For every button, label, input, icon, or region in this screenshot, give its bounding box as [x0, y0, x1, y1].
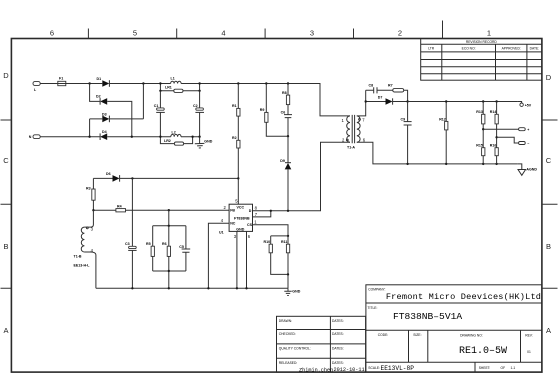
svg-text:C: C — [546, 156, 552, 165]
wire IC bottom pins — [237, 231, 247, 288]
diode D1 — [97, 77, 110, 87]
svg-text:C1: C1 — [154, 104, 159, 108]
svg-text:F1: F1 — [59, 77, 63, 81]
svg-text:C: C — [3, 156, 9, 165]
svg-text:D3: D3 — [102, 112, 107, 116]
node LR2 right — [191, 136, 193, 138]
svg-text:AGND: AGND — [526, 167, 537, 171]
svg-text:L1: L1 — [171, 76, 175, 80]
svg-text:1-1: 1-1 — [511, 366, 516, 370]
node clamp R8 top — [287, 82, 289, 84]
svg-text:4: 4 — [221, 29, 225, 38]
node sense bottom — [287, 273, 289, 275]
svg-text:D: D — [546, 73, 552, 82]
svg-text:EE13VL-8P: EE13VL-8P — [381, 365, 415, 372]
node C2 bottom — [198, 136, 200, 138]
resistor R3 — [86, 178, 95, 210]
svg-text:7: 7 — [362, 118, 365, 123]
svg-text:FT838NB: FT838NB — [234, 217, 250, 221]
resistor R7 clamp — [260, 84, 288, 137]
node L junction — [88, 82, 90, 84]
node + rail junction — [142, 82, 144, 84]
wire L2 right — [181, 136, 200, 138]
svg-text:ECO NO:: ECO NO: — [462, 47, 476, 51]
wire D2 anode to minus vertical — [107, 101, 132, 136]
svg-text:3: 3 — [234, 234, 237, 239]
node minus rail junction — [131, 136, 133, 138]
node LR1 right — [198, 90, 200, 92]
svg-text:DATES:: DATES: — [332, 347, 344, 351]
node divider mid right — [495, 136, 497, 138]
zone letters right — [546, 73, 552, 335]
resistor R12 preload — [439, 102, 448, 164]
node FB group bottom — [168, 270, 170, 272]
resistor R9 sense left — [264, 236, 289, 275]
svg-text:01: 01 — [527, 350, 531, 354]
wire D1 to L1 — [110, 83, 171, 85]
svg-text:APPROVED:: APPROVED: — [502, 47, 521, 51]
svg-text:T1-A: T1-A — [347, 146, 355, 150]
resistor LR2 — [160, 137, 192, 146]
svg-text:L: L — [34, 88, 37, 92]
svg-text:3: 3 — [310, 29, 314, 38]
svg-text:R8: R8 — [282, 91, 287, 95]
svg-text:R13: R13 — [476, 110, 483, 114]
wire primary pin2 to drain — [253, 142, 351, 211]
aux winding T1-B — [74, 210, 96, 288]
svg-text:1: 1 — [342, 118, 345, 123]
svg-text:D: D — [249, 209, 252, 213]
node N junction — [88, 136, 90, 138]
svg-text:DATES:: DATES: — [332, 332, 344, 336]
svg-text:CHECKED:: CHECKED: — [279, 332, 296, 336]
capacitor C9 — [401, 102, 412, 164]
svg-text:RELEASED:: RELEASED: — [279, 361, 298, 365]
svg-text:DATE:: DATE: — [530, 47, 540, 51]
capacitor C8 — [366, 84, 393, 94]
node FB group — [168, 209, 170, 211]
svg-text:3: 3 — [91, 226, 94, 231]
fuse F1 — [58, 77, 66, 86]
svg-text:LR1: LR1 — [165, 86, 172, 90]
svg-text:7: 7 — [255, 212, 258, 217]
svg-text:DATES:: DATES: — [332, 361, 344, 365]
svg-text:D6: D6 — [106, 172, 111, 176]
wire NC pin to gnd — [208, 223, 229, 288]
svg-text:R6: R6 — [162, 242, 167, 246]
ground GND primary — [284, 288, 300, 295]
transformer core — [352, 115, 354, 143]
svg-text:−: − — [527, 142, 529, 146]
resistor R6 — [162, 226, 171, 271]
wire L to fuse — [40, 83, 58, 85]
wire sense node line — [271, 235, 288, 237]
svg-text:LR2: LR2 — [164, 139, 171, 143]
resistor R8 clamp — [282, 84, 290, 105]
node rail NC — [207, 287, 209, 289]
wire output top rail — [408, 101, 518, 103]
svg-text:Fremont Micro Deevices(HK)Ltd: Fremont Micro Deevices(HK)Ltd — [386, 292, 541, 302]
connector plus — [519, 128, 530, 132]
svg-text:B: B — [546, 242, 551, 251]
svg-text:VCC: VCC — [237, 206, 245, 210]
title block — [366, 285, 542, 372]
ground AGND — [518, 164, 538, 175]
node divider right top — [495, 100, 497, 102]
svg-text:Zhimin.chen: Zhimin.chen — [299, 367, 333, 373]
svg-text:DRAWING NO:: DRAWING NO: — [460, 334, 483, 338]
connector +5V — [517, 102, 531, 108]
svg-text:B: B — [3, 242, 8, 251]
svg-text:R3: R3 — [86, 186, 91, 190]
connector minus — [519, 142, 530, 146]
svg-text:QUALITY CONTROL:: QUALITY CONTROL: — [279, 347, 311, 351]
svg-text:C2: C2 — [193, 104, 198, 108]
wire D4 to filter — [107, 136, 171, 138]
svg-text:6: 6 — [363, 138, 366, 143]
zone tick marks right — [542, 120, 558, 288]
node divider left bottom — [482, 163, 484, 165]
svg-text:N: N — [29, 135, 32, 139]
earth ground primary filter — [195, 137, 213, 148]
svg-text:SIZE:: SIZE: — [413, 333, 421, 337]
zone letters left — [3, 71, 9, 335]
svg-text:R10: R10 — [264, 240, 271, 244]
svg-text:CODE:: CODE: — [378, 333, 389, 337]
wire secondary pin6 to gnd rail — [357, 142, 518, 164]
svg-text:C5: C5 — [179, 245, 184, 249]
svg-text:EE13-H-L: EE13-H-L — [74, 264, 91, 268]
svg-text:REV:: REV: — [525, 334, 533, 338]
svg-text:L2: L2 — [172, 131, 176, 135]
svg-text:2: 2 — [224, 205, 227, 210]
diode D6 — [93, 172, 238, 182]
node VCC pin column — [237, 177, 239, 179]
svg-text:1: 1 — [487, 29, 491, 38]
wire fuse to D1 — [66, 83, 103, 85]
svg-text:R9: R9 — [260, 108, 265, 112]
svg-text:NC: NC — [230, 222, 236, 226]
node clamp — [287, 135, 289, 137]
svg-text:2: 2 — [342, 138, 345, 143]
svg-text:R12: R12 — [439, 117, 446, 121]
capacitor C6 — [281, 105, 292, 137]
resistor R5 — [146, 226, 154, 271]
resistor R10 sense right — [281, 236, 290, 288]
wire FB group top line — [153, 210, 186, 226]
resistor R16 divider bottom right — [490, 144, 499, 164]
approval table — [277, 316, 366, 373]
diode D9 — [280, 136, 291, 211]
svg-text:RE1.0–5W: RE1.0–5W — [459, 346, 507, 357]
diode D2 — [96, 95, 107, 105]
zone tick marks left — [1, 120, 12, 288]
node clamp R9 top — [265, 82, 267, 84]
svg-text:A: A — [3, 326, 8, 335]
resistor LR1 — [160, 84, 199, 93]
svg-text:DATES:: DATES: — [332, 319, 344, 323]
node L2 left — [159, 136, 161, 138]
node divider mid left — [482, 128, 484, 130]
svg-text:D9: D9 — [280, 159, 285, 163]
svg-text:2: 2 — [398, 29, 402, 38]
svg-text:FB: FB — [230, 209, 235, 213]
svg-text:R11: R11 — [281, 240, 287, 244]
svg-text:R1: R1 — [232, 104, 237, 108]
node pin7 snubber — [365, 100, 367, 102]
svg-text:OF: OF — [501, 366, 506, 370]
node rail pin3 — [236, 287, 238, 289]
resistor R15 divider bottom left — [476, 144, 485, 164]
svg-text:C6: C6 — [281, 110, 286, 114]
svg-text:C8: C8 — [369, 84, 374, 88]
svg-text:5: 5 — [133, 29, 137, 38]
node rail C3 — [131, 287, 133, 289]
capacitor C1 — [154, 91, 165, 137]
wire to plus connector — [483, 128, 519, 130]
node VCC C3 — [131, 177, 133, 179]
svg-text:CS: CS — [247, 223, 253, 227]
primary winding T1-A — [342, 116, 356, 150]
node R12 top — [445, 100, 447, 102]
svg-text:D1: D1 — [97, 77, 102, 81]
node R4 left — [92, 209, 94, 211]
resistor R13 divider top left — [476, 102, 485, 148]
capacitor C2 — [193, 91, 204, 137]
inductor L1 — [171, 76, 182, 83]
capacitor C5 — [179, 226, 190, 271]
node drain D9 — [287, 210, 289, 212]
svg-text:R7: R7 — [388, 84, 393, 88]
resistor R14 divider top right — [490, 102, 499, 148]
node LR1 left — [159, 90, 161, 92]
svg-text:GND: GND — [204, 140, 212, 144]
svg-text:D: D — [3, 71, 9, 80]
wire L1 to corner — [181, 84, 350, 116]
svg-text:T1-B: T1-B — [74, 254, 82, 258]
diode D3 — [102, 112, 109, 122]
svg-text:2012-10-11: 2012-10-11 — [334, 367, 365, 373]
node L1 right — [198, 82, 200, 84]
wire D3 row — [90, 84, 144, 137]
svg-text:R5: R5 — [146, 242, 151, 246]
resistor R4 — [93, 204, 229, 212]
node startup column top — [237, 82, 239, 84]
wire pin7 jog — [253, 211, 271, 217]
svg-text:DRAWN:: DRAWN: — [279, 319, 292, 323]
svg-text:R15: R15 — [476, 144, 483, 148]
svg-text:4: 4 — [221, 218, 224, 223]
node L1 left — [159, 82, 161, 84]
svg-text:6: 6 — [248, 234, 251, 239]
node rail FB group — [168, 287, 170, 289]
svg-text:TITLE:: TITLE: — [368, 306, 378, 310]
wire VCC down to IC — [237, 178, 239, 204]
diode D4 — [100, 130, 107, 140]
svg-text:GND: GND — [236, 228, 244, 232]
svg-text:D7: D7 — [378, 95, 383, 99]
wire secondary pin7 up — [357, 90, 366, 116]
svg-text:A: A — [546, 326, 551, 335]
inductor L2 — [171, 131, 181, 137]
node FB group top — [168, 225, 170, 227]
resistor R2 — [232, 116, 240, 178]
svg-text:R4: R4 — [117, 204, 122, 208]
svg-text:C3: C3 — [125, 242, 130, 246]
node divider right bottom — [495, 163, 497, 165]
svg-text:REVISION RECORD: REVISION RECORD — [466, 40, 498, 44]
revision record table — [421, 39, 542, 81]
secondary winding T1-A — [357, 116, 366, 143]
connector N — [29, 135, 41, 139]
svg-text:SCALE:: SCALE: — [368, 366, 380, 370]
svg-text:R16: R16 — [490, 144, 497, 148]
svg-text:D4: D4 — [102, 130, 107, 134]
wire N to D4 — [40, 136, 100, 138]
svg-text:C9: C9 — [401, 118, 406, 122]
node CS sense — [287, 235, 289, 237]
node drain pin7 — [270, 210, 272, 212]
svg-text:R14: R14 — [490, 110, 497, 114]
connector L — [33, 82, 40, 92]
svg-text:5: 5 — [235, 198, 238, 203]
zone numbers top — [50, 29, 491, 38]
svg-text:D2: D2 — [96, 95, 101, 99]
zone tick marks top — [88, 21, 442, 39]
svg-text:+5V: +5V — [525, 104, 532, 108]
wire primary ground rail — [96, 287, 288, 289]
IC U1 FT838NB — [219, 198, 258, 239]
svg-text:U1: U1 — [219, 231, 224, 235]
svg-text:GND: GND — [292, 289, 300, 293]
svg-text:R2: R2 — [232, 136, 237, 140]
wire FB group bottom line — [153, 271, 186, 288]
node C9 bottom — [406, 163, 408, 165]
svg-text:+: + — [527, 128, 529, 132]
node D7 out — [406, 100, 408, 102]
svg-text:6: 6 — [50, 29, 54, 38]
node R12 bottom — [445, 163, 447, 165]
svg-text:FT838NB–5V1A: FT838NB–5V1A — [393, 311, 462, 322]
diode D7 — [366, 95, 408, 104]
svg-text:COMPANY:: COMPANY: — [368, 288, 385, 292]
node rail pin6 — [245, 287, 247, 289]
svg-text:LTR: LTR — [428, 47, 435, 51]
resistor R11 snubber — [388, 84, 408, 102]
wire CS pin — [253, 225, 289, 236]
svg-text:SHEET:: SHEET: — [479, 366, 491, 370]
svg-text:1: 1 — [254, 220, 257, 225]
resistor R1 — [232, 84, 240, 117]
wire to minus connector — [497, 137, 519, 143]
wire vertical L node to D2 — [90, 84, 100, 102]
svg-text:8: 8 — [255, 206, 258, 211]
node divider left top — [482, 100, 484, 102]
capacitor C3 — [125, 178, 137, 288]
